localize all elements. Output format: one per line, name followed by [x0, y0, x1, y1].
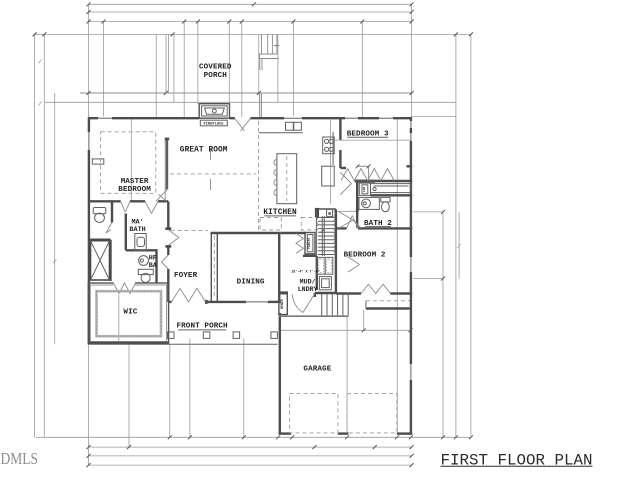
fireplace bump outer box: [199, 104, 229, 119]
garage entry door leaf: [292, 294, 314, 313]
kitchen dashed boundary: [258, 121, 260, 233]
extension line master window: [103, 22, 105, 118]
master bottom wall segment b: [130, 200, 145, 202]
extension line front porch col2: [243, 339, 245, 438]
window bedroom2 on right wall: [409, 257, 413, 272]
landing wall to garage: [315, 292, 336, 294]
stair rail double line: [322, 216, 324, 256]
garage left wall: [279, 313, 281, 434]
porch column 2: [203, 332, 210, 339]
foyer closet west line: [210, 233, 212, 302]
extension line front porch col: [189, 339, 191, 438]
svg-text:BA: BA: [149, 262, 158, 270]
porch column 4: [271, 332, 278, 339]
stove burners: [325, 139, 334, 151]
landing corner stub: [314, 293, 316, 297]
island chair scallops: [274, 160, 277, 196]
garage stairs treads: [322, 294, 349, 316]
dimension line top row 1: [89, 3, 412, 5]
bath2 south wall west segment: [336, 227, 347, 229]
hf ba toilet: [138, 269, 153, 282]
extension line fireplace right: [228, 22, 230, 104]
bedroom2 closet bifold M: [361, 284, 391, 293]
extension line stoop left: [363, 310, 365, 330]
stoop left edge: [365, 301, 367, 309]
hall wall kitchen to pantry: [281, 232, 306, 234]
bedroom3 dashed ceiling line: [334, 139, 411, 141]
porch lower edge line: [80, 92, 412, 94]
mud hall cabinet dashed left: [260, 218, 281, 231]
WIC center extension line: [118, 295, 120, 341]
extension line porch a: [183, 22, 185, 118]
mud sink box: [319, 277, 331, 290]
shower with X: [91, 241, 110, 280]
toilet master wc: [93, 208, 106, 223]
bedroom2 entry door swing: [339, 212, 361, 229]
stair top wall: [315, 208, 336, 210]
bath2 north wall: [371, 194, 413, 196]
front door double swing: [172, 288, 206, 302]
window kitchen sink on top wall: [284, 116, 302, 120]
front wall left segment with door opening: [169, 301, 171, 303]
window master on left wall: [87, 132, 91, 150]
hf ba door wall stub: [167, 269, 169, 302]
foyer west wall upper: [167, 202, 169, 229]
svg-text:MUD/: MUD/: [300, 279, 316, 286]
tick marks top row3: [87, 20, 414, 24]
tick marks porch line: [87, 91, 414, 95]
shower east wall: [109, 240, 111, 281]
right extension line mid: [442, 212, 444, 437]
bottom dim line 4: [89, 464, 412, 466]
washer box: [317, 257, 325, 274]
foyer dashed line: [171, 229, 208, 231]
bath2 toilet: [381, 197, 390, 211]
svg-text:18'-4" X 7'-0": 18'-4" X 7'-0": [291, 269, 320, 274]
cased opening jamb stub: [165, 138, 169, 141]
left extension line outer: [34, 34, 36, 437]
bedroom3 south wall east stub: [407, 165, 413, 167]
bedroom3 west wall lower: [339, 150, 341, 168]
WIC bottom wall thick: [88, 342, 168, 344]
dryer box: [325, 257, 333, 274]
front porch edge: [88, 343, 277, 345]
left extension line third: [54, 93, 56, 344]
hf ba sink: [139, 256, 149, 266]
mud door swing: [348, 257, 360, 272]
stairs east wall / bedroom2 west wall: [335, 209, 337, 293]
porch door post double line: [260, 93, 262, 118]
tick marks top row1 row2: [87, 2, 414, 14]
bath2 door swing: [347, 216, 359, 229]
extension line right porch end: [455, 34, 457, 437]
WIC door gap in shelf band: [111, 289, 138, 296]
ma bath hf ba divider wall: [126, 249, 158, 251]
closet bottom wall: [355, 180, 413, 182]
shower top wall: [89, 238, 111, 240]
bottom dim line 2: [89, 446, 412, 448]
dimension line top row 3: [89, 21, 412, 23]
mud west wall: [316, 256, 318, 290]
right side dim connector upper: [413, 211, 443, 213]
svg-text:FOYER: FOYER: [174, 272, 198, 280]
svg-text:LIN: LIN: [363, 187, 366, 193]
porch step edge line: [44, 101, 456, 103]
pantry door zigzag: [296, 234, 304, 254]
dimension line top row 2: [89, 11, 412, 13]
dining north wall: [211, 232, 281, 234]
right exterior wall: [410, 117, 412, 435]
right extension line outer: [470, 34, 472, 437]
dining window front wall: [246, 301, 268, 303]
closet depth dim lines: [356, 164, 371, 180]
svg-text:BEDROOM: BEDROOM: [118, 186, 151, 194]
garage interior dim line: [281, 329, 411, 331]
extension line porch column 1: [128, 344, 130, 447]
master door 2 swing: [145, 201, 158, 213]
stoop dashed top: [366, 300, 410, 302]
tick marks top row4: [33, 32, 473, 36]
master bottom wall segment a: [89, 200, 121, 202]
extension line fireplace left: [197, 22, 199, 104]
tiny rotated dim text marks: [38, 60, 460, 264]
extension line stoop right: [396, 119, 398, 434]
WALLS: [87, 104, 413, 435]
porch column 1: [168, 332, 175, 339]
extension line house left wall top: [88, 4, 90, 117]
kitchen extension line through appliances: [330, 119, 332, 204]
DETAILS: [33, 2, 473, 467]
porch step detail verticals: [260, 34, 280, 70]
foyer hall door jamb top: [165, 227, 171, 230]
stair dashed rail: [333, 210, 335, 254]
tick marks bottom long line: [168, 435, 473, 439]
svg-text:BENCH: BENCH: [280, 299, 284, 309]
ma bath vanity: [135, 234, 146, 251]
window garage on right wall: [409, 364, 413, 380]
right side dim connector lower: [413, 278, 443, 280]
master bottom wall segment c: [158, 200, 168, 202]
fridge box: [322, 166, 335, 186]
bath2 vanity: [359, 197, 379, 209]
window bedroom3 on right wall: [409, 121, 413, 141]
bath hall wall: [125, 214, 127, 251]
garage bottom wall segment 3: [397, 432, 412, 434]
left extension line inner: [43, 34, 45, 437]
garage bottom wall segment 2: [338, 432, 349, 434]
svg-text:DMLS: DMLS: [1, 449, 39, 468]
stoop bottom wall: [366, 307, 410, 309]
foyer closet east line: [216, 233, 218, 302]
svg-text:B: B: [328, 211, 331, 217]
bench box: [279, 294, 287, 315]
tick marks right column: [362, 210, 445, 332]
linen closet flange: [356, 180, 375, 183]
svg-text:PORCH: PORCH: [204, 72, 228, 80]
great room center dash marks: [210, 149, 212, 190]
right extension line inner: [458, 212, 460, 279]
great room dashed line: [170, 173, 256, 175]
front door right jamb post: [205, 300, 208, 304]
tick marks bottom rows: [87, 445, 414, 467]
extension line porch d: [277, 34, 279, 102]
master entry door swing: [156, 190, 167, 202]
extension line house left wall bottom: [88, 344, 90, 465]
kitchen corner counter edge: [332, 132, 334, 165]
window seat niche on left wall: [92, 159, 104, 164]
svg-text:WIC: WIC: [123, 308, 137, 316]
window bedroom3 b on top wall: [379, 116, 393, 120]
bedroom3 south wall west stub: [340, 167, 346, 169]
master east wall thin parallel: [164, 139, 166, 202]
bath2 hall jamb: [356, 209, 359, 212]
garage bottom wall segment 1: [279, 432, 292, 434]
svg-text:GARAGE: GARAGE: [303, 366, 331, 374]
svg-text:COVERED: COVERED: [199, 64, 232, 72]
WIC shelf dashes: [97, 291, 162, 336]
bath2 west wall: [356, 180, 358, 228]
extension line porch c: [258, 34, 260, 93]
WIC outer wall box: [88, 283, 168, 344]
water closet door swing: [106, 223, 112, 234]
stair rail tick: [321, 230, 324, 233]
mud hall cabinet dashed right: [301, 218, 317, 231]
left exterior wall: [88, 117, 90, 344]
bedroom2 south wall east segment: [391, 292, 413, 294]
title underline: [441, 465, 593, 467]
window master on top wall: [98, 116, 112, 120]
extension line kitchen wall: [292, 22, 294, 118]
extension line front porch left: [169, 344, 171, 437]
svg-text:FIREPLACE: FIREPLACE: [204, 122, 224, 126]
WIC door gap in top wall: [114, 281, 136, 286]
window bedroom3 a on top wall: [345, 116, 358, 120]
kitchen counter edge top: [259, 132, 303, 134]
pantry inner text box: [307, 235, 313, 252]
front wall right segment: [268, 301, 281, 303]
bedroom3 west wall: [339, 117, 341, 140]
svg-text:LNDRY: LNDRY: [298, 286, 318, 293]
extension line porch left: [173, 34, 175, 102]
dimension line top row 4 (overall width): [35, 33, 471, 35]
svg-text:DINING: DINING: [237, 279, 265, 287]
dining east wall: [278, 233, 280, 302]
svg-text:PANTRY: PANTRY: [307, 237, 311, 249]
stair west edge: [315, 209, 317, 255]
linen closet box: [359, 183, 370, 195]
porch left edge outer: [165, 34, 167, 93]
porch left edge inner: [168, 34, 170, 93]
master door 1 swing: [121, 201, 130, 212]
island dashed center: [286, 156, 288, 201]
mud north wall: [303, 255, 317, 257]
top right wall connector line: [412, 116, 456, 118]
WIC inner wall line: [90, 285, 166, 342]
mud room bottom wall stub: [278, 291, 288, 293]
great room porch door swing leaves: [235, 119, 251, 132]
garage door dashed left: [290, 394, 338, 433]
hall cased opening line: [338, 210, 358, 212]
bottom dim line 3: [89, 455, 412, 457]
foyer west wall lower: [167, 247, 169, 256]
bedroom3 closet bifold zigzag: [341, 169, 394, 181]
fireplace firebox trapezoid: [205, 108, 225, 114]
master bedroom dashed ceiling rect: [101, 132, 156, 194]
hall door swing to bedroom3: [340, 173, 351, 195]
foyer hall door jamb bottom: [165, 245, 171, 248]
garage door dashed right: [347, 394, 397, 433]
extension line through master bedroom: [130, 118, 132, 201]
hf ba door leaf: [162, 255, 169, 269]
fireplace circle: [212, 109, 216, 113]
svg-text:BEDROOM 2: BEDROOM 2: [344, 251, 386, 259]
master bedroom east wall: [166, 139, 168, 189]
foyer hall door leaf: [168, 230, 179, 246]
extension line garage interior a: [346, 317, 348, 433]
B box at stairs: [327, 209, 333, 216]
bottom long dim line: [36, 436, 471, 438]
WIC shelf band: [97, 291, 162, 336]
front wall center segment: [206, 301, 247, 303]
bedroom2 south wall west segment: [336, 292, 361, 294]
WIC double door: [114, 283, 136, 294]
water closet east wall: [111, 201, 113, 222]
kitchen island: [277, 154, 297, 204]
foyer closet dashed shelf: [213, 236, 215, 299]
extension line master bedroom right: [155, 34, 157, 117]
garage landing edge: [279, 315, 349, 317]
porch column 3: [233, 332, 240, 339]
hf ba east wall: [155, 250, 157, 283]
extension line bedroom3 wall: [361, 22, 363, 118]
svg-text:MASTER: MASTER: [121, 178, 149, 186]
fireplace inner box: [202, 106, 228, 116]
stove box: [323, 137, 335, 154]
kitchen sink double: [286, 122, 302, 130]
fireplace label box: [200, 120, 227, 126]
extension line house right wall: [411, 4, 413, 117]
bath2 tub: [371, 184, 411, 193]
stair treads: [316, 218, 336, 255]
top exterior wall left of fireplace: [88, 117, 199, 119]
svg-text:GREAT ROOM: GREAT ROOM: [180, 147, 228, 155]
extension line porch b: [241, 22, 243, 118]
top exterior wall right of fireplace: [230, 117, 235, 119]
svg-text:BATH: BATH: [129, 226, 145, 234]
stair top post block: [315, 208, 319, 218]
pantry box: [305, 233, 315, 254]
bath2 south wall east segment: [358, 227, 412, 229]
